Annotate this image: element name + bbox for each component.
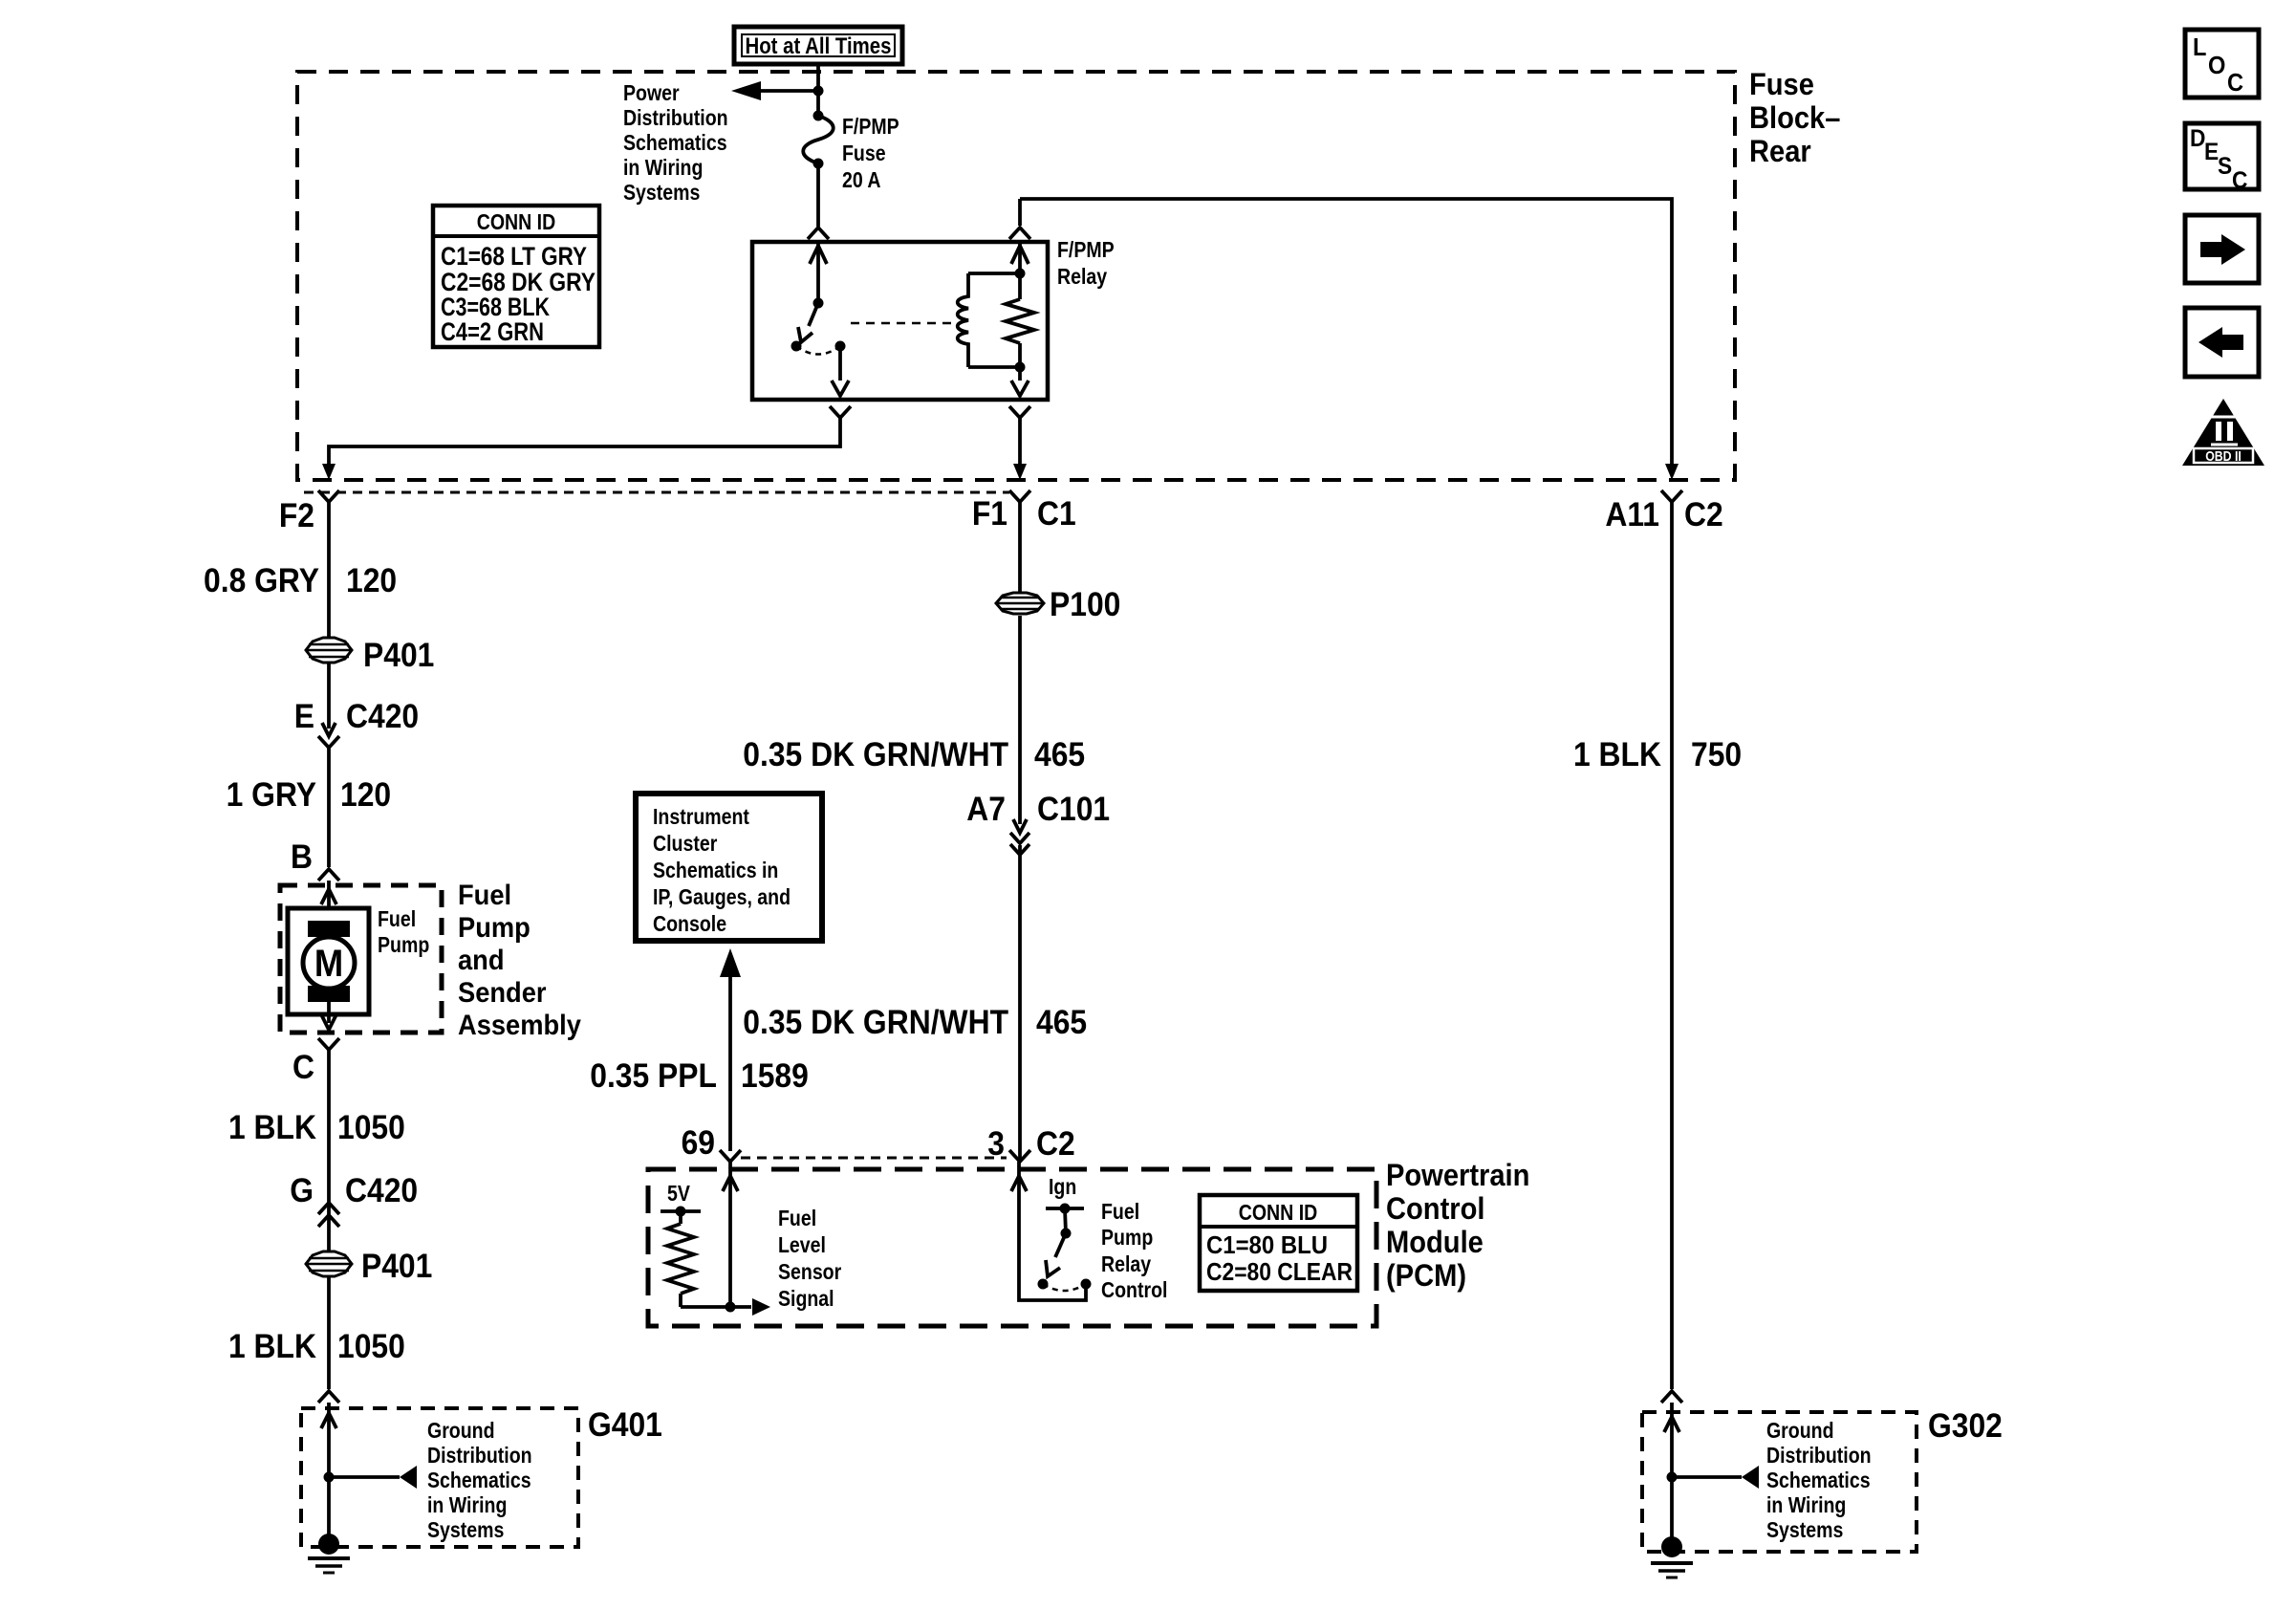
sidebar icon forward arrow <box>2185 215 2259 283</box>
label Fuse Block-Rear <box>1749 68 1840 169</box>
svg-text:C4=2 GRN: C4=2 GRN <box>441 317 544 346</box>
fuel pump and sender assembly dashed box <box>280 885 442 1033</box>
svg-text:750: 750 <box>1691 737 1742 774</box>
relay switch common pin 30 <box>816 244 820 303</box>
svg-text:F1: F1 <box>972 496 1007 533</box>
svg-text:F/PMP: F/PMP <box>842 115 899 140</box>
junction dot <box>813 86 824 97</box>
wire into fuel pump <box>327 881 331 924</box>
svg-text:Cluster: Cluster <box>653 832 717 857</box>
svg-text:Pump: Pump <box>1101 1226 1153 1251</box>
relay coil top link <box>968 272 1020 275</box>
svg-text:1 BLK: 1 BLK <box>228 1110 316 1147</box>
svg-text:Distribution: Distribution <box>1766 1444 1872 1469</box>
wire fuse to relay <box>816 163 820 227</box>
svg-text:465: 465 <box>1034 737 1085 774</box>
svg-text:1050: 1050 <box>337 1329 405 1366</box>
svg-text:Systems: Systems <box>1766 1518 1843 1543</box>
pull-up resistor (fuel level) <box>679 1211 682 1224</box>
svg-text:Level: Level <box>778 1233 826 1258</box>
svg-text:in Wiring: in Wiring <box>427 1493 507 1518</box>
label Fuel Pump (inside assembly) <box>378 907 429 958</box>
label F/PMP Relay <box>1057 238 1115 290</box>
sidebar icon OBD II triangle <box>2182 399 2264 466</box>
svg-text:Assembly: Assembly <box>458 1010 581 1041</box>
svg-text:G: G <box>290 1173 314 1210</box>
svg-text:Powertrain: Powertrain <box>1386 1159 1529 1193</box>
relay F/PMP box <box>752 242 1048 400</box>
svg-text:20 A: 20 A <box>842 168 881 193</box>
label Power Distribution Schematics in Wiring Systems <box>623 81 728 206</box>
svg-text:Console: Console <box>653 912 726 937</box>
svg-text:A11: A11 <box>1605 497 1659 534</box>
svg-text:0.35 DK GRN/WHT: 0.35 DK GRN/WHT <box>743 1005 1008 1042</box>
svg-text:E: E <box>2204 139 2219 165</box>
svg-text:1 BLK: 1 BLK <box>228 1329 316 1366</box>
relay suppression resistor <box>1018 273 1022 299</box>
ground G302 dashed box <box>1642 1412 1917 1552</box>
PCM relay control driver wire <box>1019 1162 1086 1300</box>
svg-text:Fuse: Fuse <box>1749 68 1814 102</box>
svg-text:C2: C2 <box>1684 497 1723 534</box>
node F1 / C1 <box>1009 490 1030 502</box>
svg-text:Ign: Ign <box>1049 1175 1076 1200</box>
svg-text:1 GRY: 1 GRY <box>227 777 316 815</box>
svg-text:Schematics: Schematics <box>623 131 727 156</box>
svg-text:C: C <box>292 1050 314 1087</box>
svg-text:0.8 GRY: 0.8 GRY <box>204 563 319 600</box>
svg-text:5V: 5V <box>667 1182 691 1207</box>
grommet P401 upper <box>306 638 434 675</box>
svg-text:Pump: Pump <box>378 933 429 958</box>
svg-text:(PCM): (PCM) <box>1386 1259 1466 1294</box>
svg-text:P401: P401 <box>361 1249 432 1286</box>
svg-text:Fuel: Fuel <box>458 880 511 911</box>
svg-text:F2: F2 <box>279 498 314 535</box>
wire to ground distribution reference (G302) <box>1672 1475 1742 1479</box>
ground G401 dashed box <box>301 1408 578 1547</box>
wire P401 to C420 pin E <box>327 663 331 729</box>
wire F1/C1 down to P100 <box>1018 502 1022 594</box>
ground symbol G401 <box>308 1534 350 1573</box>
svg-text:69: 69 <box>682 1125 715 1163</box>
svg-text:Fuel: Fuel <box>378 907 416 932</box>
svg-text:Sender: Sender <box>458 977 547 1009</box>
svg-text:Distribution: Distribution <box>427 1444 532 1469</box>
wire pump to pin C <box>327 1002 331 1023</box>
svg-text:Systems: Systems <box>427 1518 504 1543</box>
relay coil return to pin 85 <box>1018 367 1022 381</box>
svg-text:Pump: Pump <box>458 912 531 944</box>
svg-text:F/PMP: F/PMP <box>1057 238 1115 263</box>
pin chevron into relay <box>808 228 829 239</box>
wire relay pin 87 down and across to F2 <box>830 406 851 418</box>
svg-text:E: E <box>294 699 314 736</box>
svg-text:1 BLK: 1 BLK <box>1573 737 1661 774</box>
svg-text:L: L <box>2193 34 2206 61</box>
label Fuel Pump Relay Control <box>1101 1200 1167 1303</box>
label Powertrain Control Module (PCM) <box>1386 1159 1529 1294</box>
svg-text:G401: G401 <box>588 1407 662 1445</box>
label Ground Distribution Schematics in Wiring Systems (G401) <box>427 1419 532 1543</box>
svg-text:in Wiring: in Wiring <box>623 156 703 181</box>
PCM dashed box <box>648 1169 1376 1326</box>
svg-text:Power: Power <box>623 81 680 106</box>
wire 1 BLK 750 from A11/C2 to G302 <box>1670 502 1674 1389</box>
node A11 / C2 <box>1661 490 1682 502</box>
ground symbol G302 <box>1651 1536 1693 1577</box>
wire 0.35 DK GRN/WHT 465 to C101 <box>1018 616 1022 824</box>
svg-text:Instrument: Instrument <box>653 805 749 830</box>
svg-text:Module: Module <box>1386 1226 1484 1260</box>
fuse block rear dashed enclosure <box>297 72 1735 480</box>
svg-text:C101: C101 <box>1037 792 1110 829</box>
svg-text:Relay: Relay <box>1101 1252 1151 1277</box>
sidebar icon DESC <box>2185 123 2259 194</box>
svg-text:Systems: Systems <box>623 181 700 206</box>
svg-text:Schematics: Schematics <box>1766 1469 1871 1493</box>
svg-text:Fuel: Fuel <box>778 1207 816 1231</box>
svg-text:Schematics: Schematics <box>427 1469 531 1493</box>
svg-text:C1: C1 <box>1037 496 1076 533</box>
wire relay pin 85 down to F1 <box>1009 406 1030 418</box>
relay contact throw dashed arc <box>796 346 840 355</box>
relay coil pin 86 <box>1018 244 1022 273</box>
svg-text:Control: Control <box>1101 1278 1167 1303</box>
svg-text:120: 120 <box>346 563 397 600</box>
svg-text:1589: 1589 <box>741 1058 809 1096</box>
svg-text:IP, Gauges, and: IP, Gauges, and <box>653 885 791 910</box>
fuel pump motor M <box>288 908 369 1014</box>
wire 0.35 DK GRN/WHT 465 to PCM <box>1018 845 1022 1160</box>
relay mechanical link dashed <box>851 322 956 325</box>
relay NO contact wire to pin 87 <box>838 346 842 381</box>
connector id table CONN ID (fuse block) <box>433 206 599 347</box>
svg-text:465: 465 <box>1036 1005 1087 1042</box>
junction dot in G302 <box>1667 1472 1678 1483</box>
svg-text:0.35 PPL: 0.35 PPL <box>590 1058 717 1096</box>
wire resistor to signal node <box>681 1305 751 1309</box>
svg-text:CONN ID: CONN ID <box>477 210 555 235</box>
svg-text:G302: G302 <box>1928 1408 2003 1446</box>
label F/PMP Fuse 20 A <box>842 115 899 193</box>
svg-text:Block–: Block– <box>1749 101 1840 136</box>
svg-text:C1=68 LT GRY: C1=68 LT GRY <box>441 242 587 271</box>
svg-text:OBD II: OBD II <box>2205 448 2242 464</box>
label Fuel Level Sensor Signal <box>778 1207 841 1312</box>
svg-text:D: D <box>2190 125 2205 152</box>
wire relay pin 86 up and across to A11 <box>1009 228 1030 239</box>
label Fuel Pump and Sender Assembly <box>458 880 581 1041</box>
svg-text:S: S <box>2218 153 2232 180</box>
wire F2 gray 120 <box>327 502 331 638</box>
svg-text:Ground: Ground <box>1766 1419 1834 1444</box>
wire 1 BLK 1050 <box>327 1050 331 1251</box>
relay coil winding <box>958 273 968 367</box>
wire 1 GRY 120 to pump pin B <box>327 748 331 867</box>
connector boundary dashed line (fuse block C1) <box>304 491 1009 494</box>
svg-text:Control: Control <box>1386 1192 1484 1227</box>
wire 1 BLK 1050 to G401 <box>327 1276 331 1389</box>
wire to power distribution (left arrow) <box>758 89 818 93</box>
wire to ground distribution reference <box>329 1475 400 1479</box>
svg-text:Hot at All Times: Hot at All Times <box>746 33 892 58</box>
node Hot at All Times feed box <box>734 27 902 64</box>
svg-text:Rear: Rear <box>1749 135 1811 169</box>
PCM fuel level sense input wire <box>728 1162 732 1307</box>
svg-text:Fuse: Fuse <box>842 141 886 166</box>
svg-text:P401: P401 <box>363 638 434 675</box>
svg-text:in Wiring: in Wiring <box>1766 1493 1846 1518</box>
node F2 <box>318 490 339 502</box>
svg-text:Distribution: Distribution <box>623 106 728 131</box>
svg-text:M: M <box>314 942 343 985</box>
svg-text:120: 120 <box>340 777 391 815</box>
connector C420 pin E <box>318 736 339 748</box>
svg-text:A7: A7 <box>966 792 1006 829</box>
svg-text:0.35 DK GRN/WHT: 0.35 DK GRN/WHT <box>743 737 1008 774</box>
junction dot in G401 <box>324 1472 335 1483</box>
relay contact dots <box>791 341 802 352</box>
node C <box>318 1038 339 1050</box>
sidebar icon back arrow <box>2185 308 2259 377</box>
svg-text:1050: 1050 <box>337 1110 405 1147</box>
svg-text:P100: P100 <box>1050 587 1120 624</box>
driver switch (fuel pump relay control) <box>1065 1208 1066 1233</box>
sidebar icon LOC <box>2185 30 2259 98</box>
grommet P100 <box>996 587 1120 624</box>
svg-text:Schematics in: Schematics in <box>653 859 778 883</box>
svg-text:C1=80 BLU: C1=80 BLU <box>1206 1230 1328 1259</box>
relay coil bottom link <box>968 365 1020 369</box>
svg-text:C420: C420 <box>345 1173 418 1210</box>
svg-text:Sensor: Sensor <box>778 1260 841 1285</box>
svg-text:C420: C420 <box>346 699 419 736</box>
instrument cluster reference box <box>636 794 822 941</box>
svg-text:Fuel: Fuel <box>1101 1200 1139 1225</box>
PCM connector boundary dashed line <box>741 1157 1007 1160</box>
svg-text:C: C <box>2232 167 2247 194</box>
label Ground Distribution Schematics in Wiring Systems (G302) <box>1766 1419 1872 1543</box>
relay switch movable arm <box>809 303 818 326</box>
svg-text:Signal: Signal <box>778 1287 834 1312</box>
grommet P401 lower <box>306 1249 432 1286</box>
connector id table CONN ID (PCM) <box>1200 1195 1357 1291</box>
svg-text:CONN ID: CONN ID <box>1239 1201 1317 1226</box>
svg-text:Ground: Ground <box>427 1419 495 1444</box>
svg-text:B: B <box>291 839 313 877</box>
svg-text:C2=80 CLEAR: C2=80 CLEAR <box>1206 1257 1353 1286</box>
svg-text:C2: C2 <box>1036 1126 1075 1164</box>
svg-text:O: O <box>2208 53 2225 79</box>
svg-text:C: C <box>2227 70 2243 97</box>
svg-text:Relay: Relay <box>1057 265 1107 290</box>
wire from hot bus <box>816 64 820 116</box>
svg-text:and: and <box>458 945 505 976</box>
fuse F/PMP 20A element <box>813 111 824 121</box>
wire 0.35 PPL 1589 up to instrument cluster <box>720 948 741 977</box>
